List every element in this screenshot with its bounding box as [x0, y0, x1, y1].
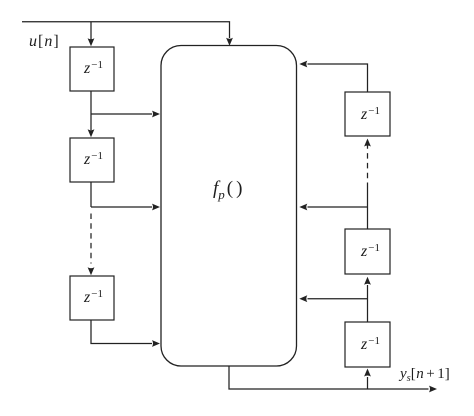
svg-text:fp(): fp()	[213, 178, 242, 202]
svg-text:u[n]: u[n]	[29, 33, 59, 50]
